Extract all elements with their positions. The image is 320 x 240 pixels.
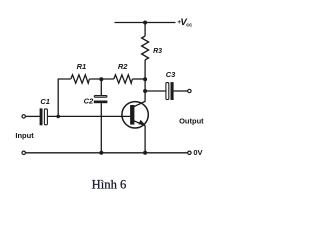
svg-text:R2: R2	[118, 62, 128, 71]
svg-text:Output: Output	[179, 116, 204, 125]
svg-text:R3: R3	[153, 48, 162, 55]
svg-text:R1: R1	[77, 62, 87, 71]
svg-text:C2: C2	[84, 96, 94, 105]
svg-text:Hình 6: Hình 6	[92, 177, 127, 191]
svg-text:C1: C1	[40, 97, 50, 106]
svg-text:cc: cc	[186, 23, 192, 29]
svg-text:Input: Input	[15, 131, 34, 140]
svg-text:C3: C3	[166, 70, 176, 79]
svg-text:0V: 0V	[193, 148, 202, 157]
